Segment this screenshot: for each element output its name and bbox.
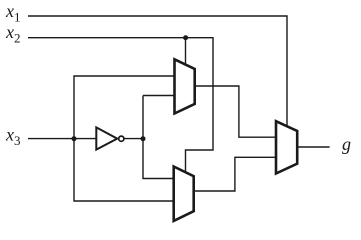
svg-text:g: g [342,134,351,154]
